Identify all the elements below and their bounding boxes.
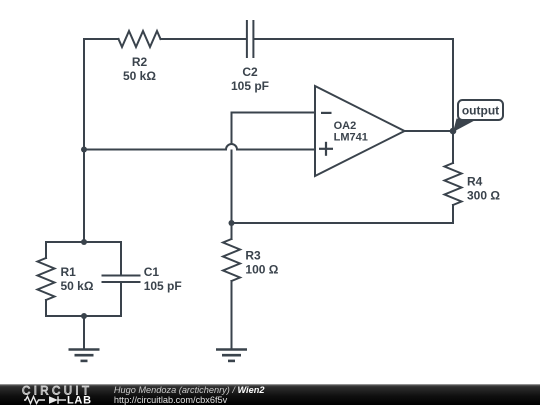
svg-text:100 Ω: 100 Ω	[245, 262, 278, 276]
svg-text:R2: R2	[132, 55, 148, 69]
svg-text:C2: C2	[242, 65, 258, 79]
svg-text:C1: C1	[144, 265, 160, 279]
svg-text:105 pF: 105 pF	[231, 79, 269, 93]
svg-text:OA2: OA2	[334, 120, 357, 132]
svg-text:LAB: LAB	[67, 394, 92, 405]
svg-text:R1: R1	[61, 265, 77, 279]
svg-text:R3: R3	[245, 248, 261, 262]
svg-text:R4: R4	[467, 175, 483, 189]
svg-text:50 kΩ: 50 kΩ	[123, 69, 156, 83]
svg-text:http://circuitlab.com/cbx6f5v: http://circuitlab.com/cbx6f5v	[114, 395, 228, 405]
svg-text:50 kΩ: 50 kΩ	[61, 279, 94, 293]
svg-text:300 Ω: 300 Ω	[467, 188, 500, 202]
svg-text:Hugo Mendoza (arctichenry) / W: Hugo Mendoza (arctichenry) / Wien2	[114, 385, 265, 395]
svg-text:105 pF: 105 pF	[144, 279, 182, 293]
svg-text:output: output	[462, 104, 499, 118]
svg-text:LM741: LM741	[334, 132, 368, 144]
